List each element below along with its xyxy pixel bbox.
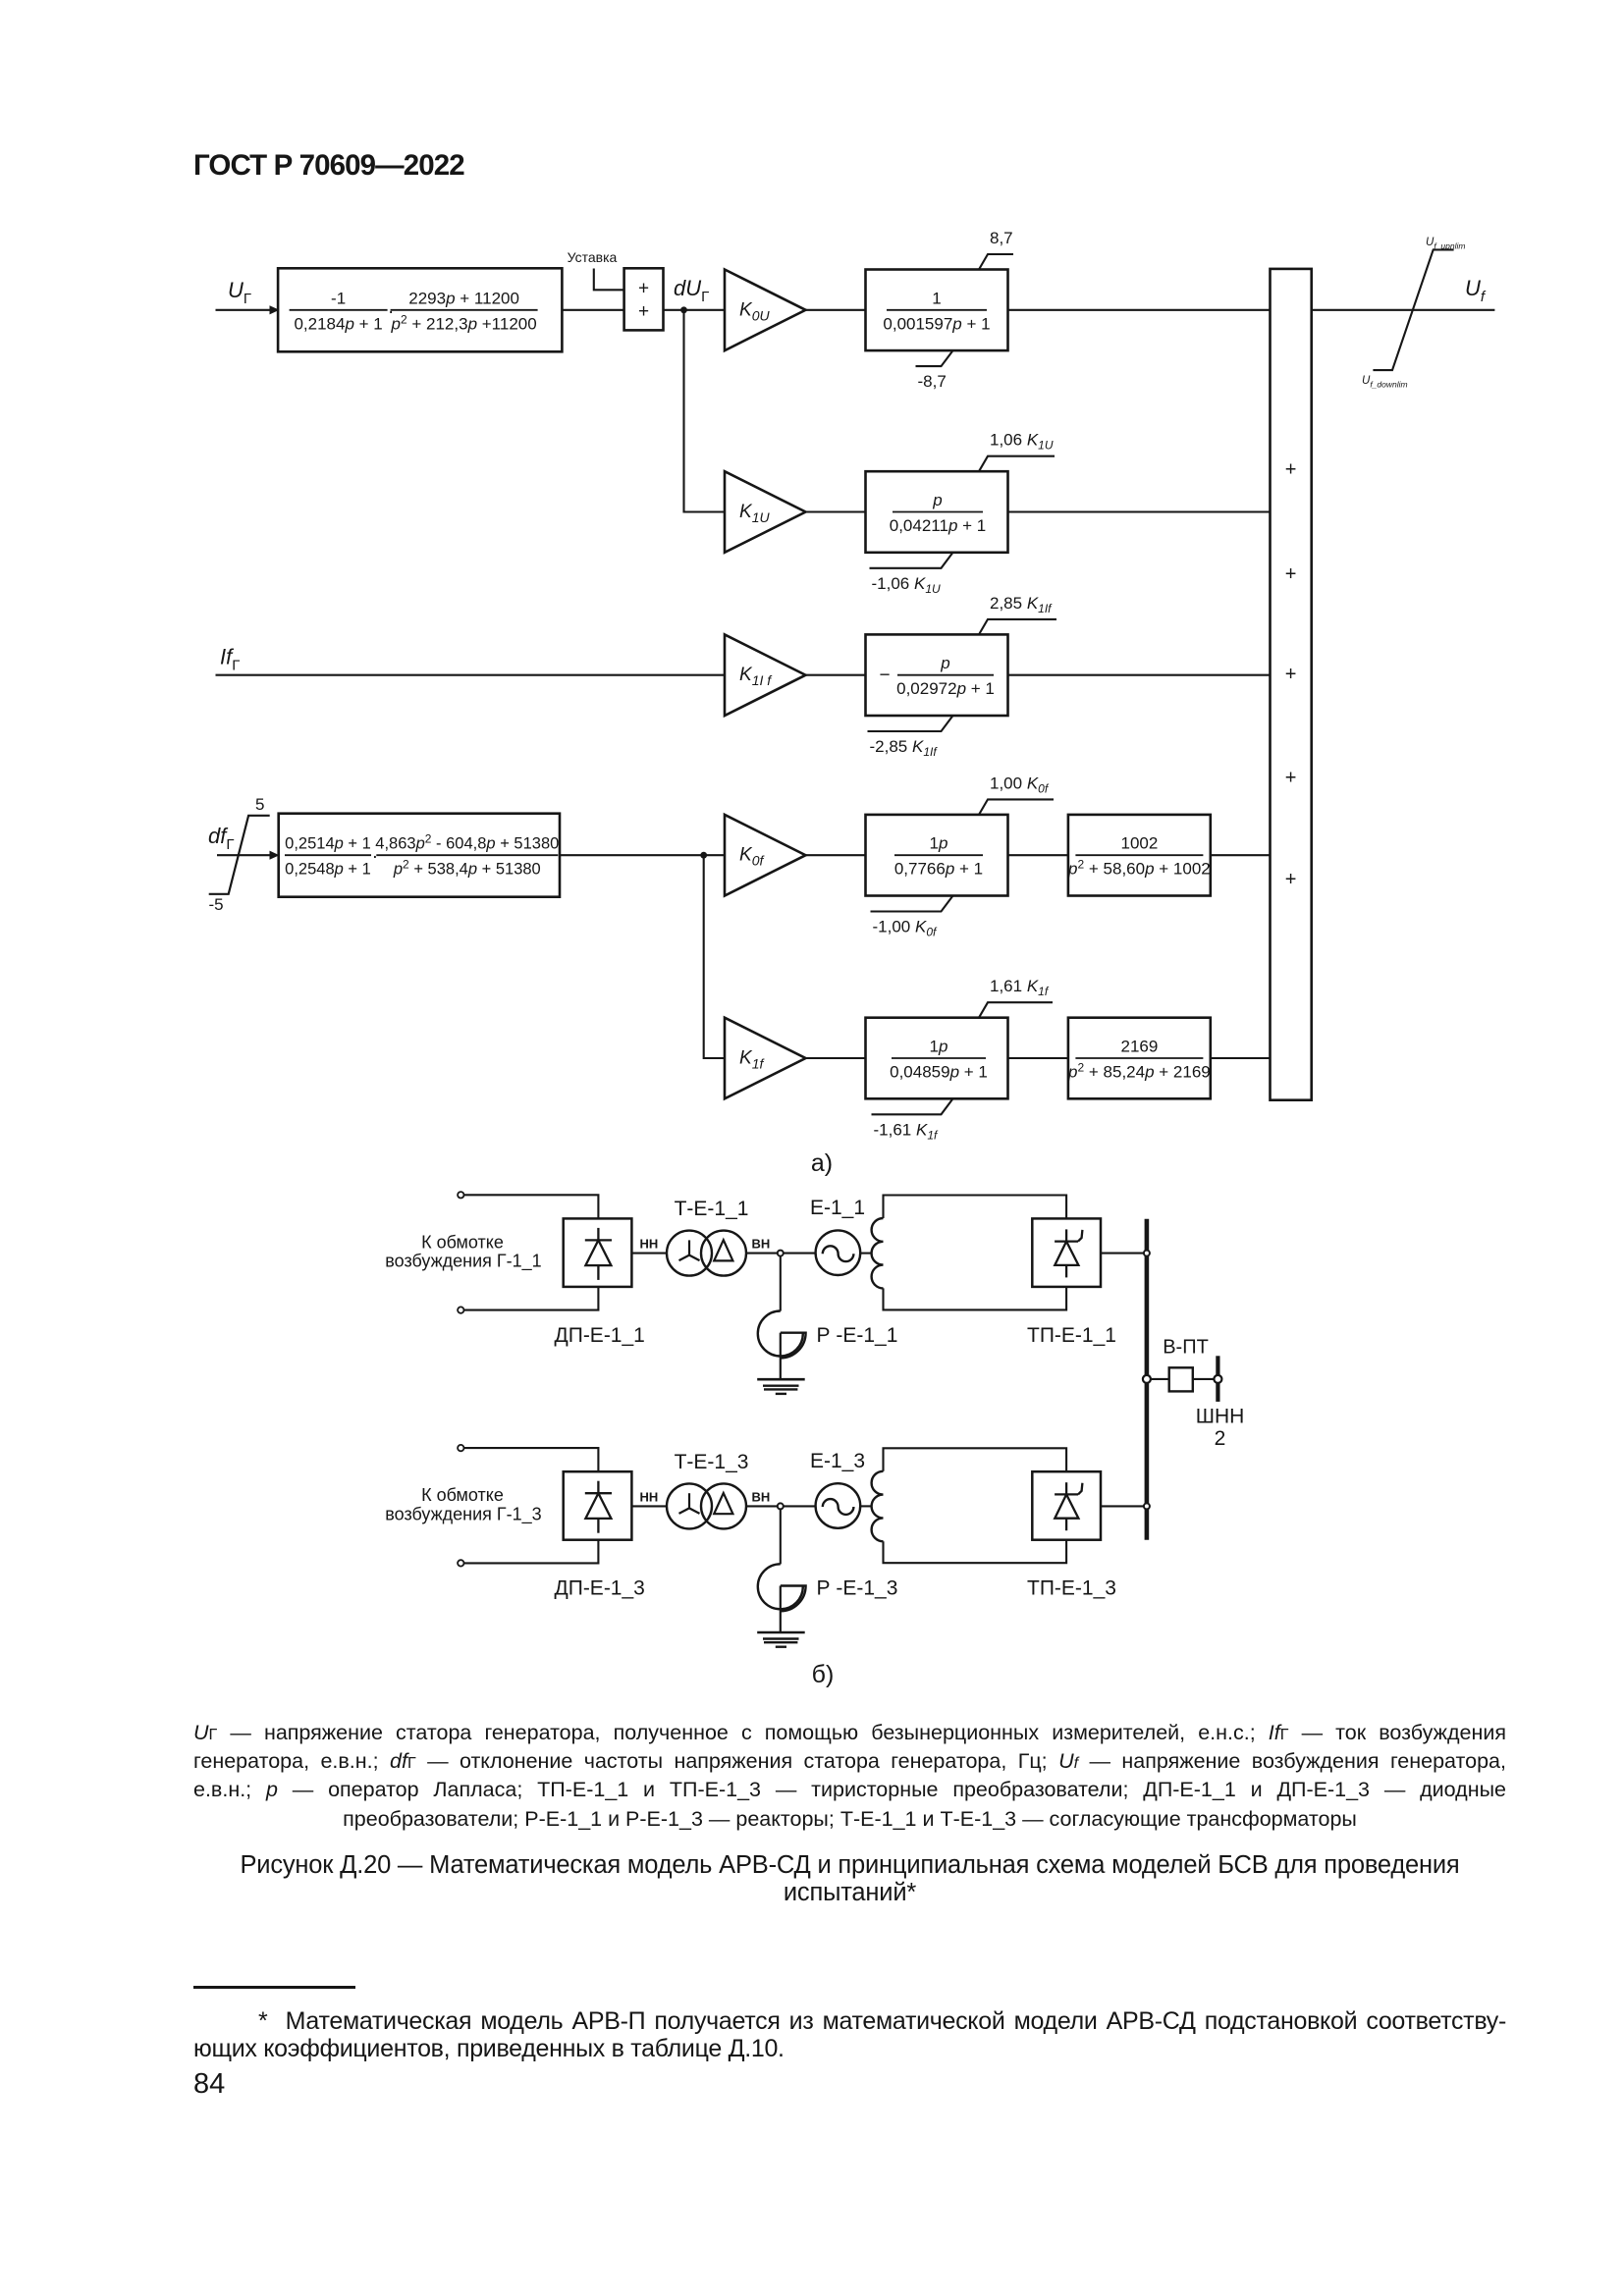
node ВН junction [778, 1503, 784, 1509]
svg-text:ТП-Е-1_1: ТП-Е-1_1 [1027, 1324, 1116, 1347]
block 1/(0,001597p+1) [866, 270, 1008, 351]
svg-text:+: + [638, 301, 649, 322]
generator Е-1_1 [816, 1230, 861, 1275]
svg-text:возбуждения Г-1_3: возбуждения Г-1_3 [385, 1504, 541, 1524]
summing bar [1271, 269, 1312, 1100]
legend line 3 [193, 1776, 1506, 1804]
svg-text:1,61 K1f: 1,61 K1f [990, 977, 1050, 998]
thyristor converter ТП-Е-1_3 [1032, 1471, 1101, 1540]
svg-text:Т-Е-1_3: Т-Е-1_3 [675, 1451, 749, 1473]
svg-text:б): б) [812, 1661, 835, 1688]
svg-text:UГ: UГ [228, 278, 251, 307]
wire block to summing bar row1 [1008, 309, 1271, 311]
wire junction to reactor Р-Е-1_3 [780, 1509, 782, 1564]
svg-text:IfГ: IfГ [220, 645, 240, 674]
svg-text:0,001597p + 1: 0,001597p + 1 [883, 314, 990, 333]
svg-text:8,7: 8,7 [990, 229, 1013, 247]
svg-text:Е-1_3: Е-1_3 [810, 1450, 865, 1472]
wire to block 1002 [1008, 854, 1068, 856]
node dUГ junction [680, 306, 687, 313]
svg-text:+: + [638, 279, 649, 299]
svg-text:p2 + 58,60p + 1002: p2 + 58,60p + 1002 [1067, 858, 1211, 879]
svg-text:0,02972p + 1: 0,02972p + 1 [896, 679, 995, 698]
wire transformer to Е [746, 1505, 816, 1507]
svg-text:-1: -1 [331, 289, 346, 307]
svg-text:ДП-Е-1_1: ДП-Е-1_1 [555, 1324, 645, 1347]
svg-text:возбуждения Г-1_1: возбуждения Г-1_1 [385, 1252, 541, 1272]
svg-text:dUГ: dUГ [674, 276, 709, 305]
wire summer to K0U [664, 309, 726, 311]
page number [193, 2070, 225, 2099]
generator Е-1_3 [816, 1483, 861, 1528]
legend line 1 [193, 1719, 1506, 1747]
svg-text:1p: 1p [930, 834, 948, 853]
svg-text:Uf_upnlim: Uf_upnlim [1426, 237, 1465, 251]
svg-text:ШНН: ШНН [1196, 1405, 1245, 1427]
wire bus to В-ПТ [1151, 1378, 1169, 1380]
svg-text:0,2514p + 1: 0,2514p + 1 [285, 835, 371, 853]
svg-text:Uf_downlim: Uf_downlim [1362, 375, 1408, 390]
svg-text:5: 5 [255, 795, 264, 814]
wire Uf output [1312, 309, 1495, 311]
transformer Т-Е-1_1 star winding [667, 1231, 712, 1276]
svg-text:2169: 2169 [1120, 1038, 1158, 1056]
transformer Т-Е-1_1 delta winding [701, 1231, 746, 1276]
saturation limiter symbol [1373, 249, 1453, 370]
wire junction to reactor Р-Е-1_1 [780, 1256, 782, 1311]
wire block 1002 to summing bar [1211, 854, 1271, 856]
terminal lower 1_3 [458, 1560, 463, 1566]
ground [757, 1378, 805, 1381]
legend line 4 [193, 1805, 1506, 1834]
svg-text:0,04859p + 1: 0,04859p + 1 [890, 1063, 988, 1082]
block p/(0,04211p+1) [866, 471, 1008, 553]
footnote line 2 [193, 2035, 1506, 2062]
wire K0U to block [806, 309, 866, 311]
svg-text:+: + [1285, 563, 1297, 585]
svg-text:1,00 K0f: 1,00 K0f [990, 774, 1050, 795]
transformer Т-Е-1_3 star winding [667, 1483, 712, 1528]
svg-text:-8,7: -8,7 [918, 372, 947, 391]
svg-text:ВН: ВН [752, 1237, 771, 1252]
svg-text:p2 + 538,4p + 51380: p2 + 538,4p + 51380 [393, 858, 541, 879]
amplifier K1U [725, 471, 806, 553]
node df junction [700, 852, 707, 859]
reactor Р-Е-1_3 [758, 1564, 803, 1609]
wire lower terminal to ДП-Е-1_1 [464, 1287, 599, 1310]
wire Уставка to summer [594, 269, 624, 291]
wire W1 to summer [562, 309, 623, 311]
svg-text:ВН: ВН [752, 1489, 771, 1504]
summing block [624, 268, 664, 330]
terminal upper 1_3 [458, 1445, 463, 1451]
wire dfГ input [217, 854, 270, 856]
wire ДП to transformer [631, 1505, 668, 1507]
svg-text:-1,00 K0f: -1,00 K0f [873, 918, 939, 939]
wire transformer to Е [746, 1253, 816, 1255]
svg-text:2,85 K1If: 2,85 K1If [990, 594, 1053, 615]
limit label 1,00 K0f [979, 799, 1054, 815]
field winding of Е-1_1 (coil) [872, 1218, 884, 1288]
amplifier K1f [725, 1018, 806, 1099]
svg-text:Uf: Uf [1465, 276, 1487, 305]
svg-text:+: + [1285, 664, 1297, 685]
input limiter 5/-5 symbol [209, 816, 270, 894]
wire block 2169 to summing bar [1211, 1057, 1271, 1059]
svg-text:p: p [940, 654, 949, 672]
block 1002/(p2+58,60p+1002) [1068, 815, 1211, 896]
figure caption [193, 1852, 1506, 1880]
header ГОСТ Р 70609—2022 [193, 149, 464, 183]
wire K1If to block [806, 674, 866, 676]
wire dUГ to K1U [684, 310, 726, 512]
svg-text:ТП-Е-1_3: ТП-Е-1_3 [1027, 1577, 1116, 1600]
node ШНН junction [1214, 1375, 1221, 1383]
switch В-ПТ [1169, 1367, 1193, 1391]
terminal lower 1_1 [458, 1307, 463, 1312]
limit label 1,61 K1f [979, 1002, 1053, 1017]
block 1p/(0,7766p+1) [866, 815, 1008, 896]
wire ТП-Е-1_3 to bus [1101, 1505, 1145, 1507]
block -p/(0,02972p+1) [866, 634, 1008, 716]
bus ШНН 2 bar [1216, 1356, 1219, 1374]
svg-text:В-ПТ: В-ПТ [1163, 1337, 1209, 1359]
bus (DC bus bar) [1145, 1219, 1150, 1540]
winding loop rectangle [884, 1448, 1067, 1471]
svg-text:-1,61 K1f: -1,61 K1f [874, 1120, 940, 1142]
svg-text:ДП-Е-1_3: ДП-Е-1_3 [555, 1577, 645, 1600]
limit label 8,7 [979, 254, 1013, 270]
limit label -8,7 [916, 350, 953, 366]
svg-text:2293p + 11200: 2293p + 11200 [408, 289, 519, 307]
svg-text:1: 1 [932, 289, 941, 307]
svg-text:p: p [932, 491, 942, 509]
svg-text:-1,06 K1U: -1,06 K1U [872, 574, 942, 596]
svg-text:НН: НН [640, 1237, 659, 1252]
wire block to summing bar row2 [1008, 510, 1271, 512]
svg-text:0,2548p + 1: 0,2548p + 1 [285, 861, 371, 879]
field winding of Е-1_3 (coil) [872, 1471, 884, 1541]
svg-text:2: 2 [1215, 1427, 1226, 1450]
footnote rule [193, 1986, 355, 1989]
wire Е to field winding [860, 1253, 872, 1255]
wire K0f to block [806, 854, 866, 856]
terminal upper 1_1 [458, 1192, 463, 1198]
limit label 2,85 K1If [979, 619, 1056, 635]
svg-text:0,7766p + 1: 0,7766p + 1 [894, 860, 983, 879]
transformer Т-Е-1_3 delta winding [701, 1483, 746, 1528]
amplifier K0f [725, 815, 806, 896]
svg-text:0,04211p + 1: 0,04211p + 1 [890, 516, 987, 535]
svg-text:+: + [1285, 869, 1297, 890]
diode converter ДП-Е-1_1 [564, 1218, 632, 1287]
svg-text:-5: -5 [209, 895, 224, 914]
svg-text:Р -Е-1_1: Р -Е-1_1 [817, 1324, 898, 1347]
svg-text:4,863p2 - 604,8p + 51380: 4,863p2 - 604,8p + 51380 [375, 832, 559, 853]
amplifier K0U [725, 270, 806, 351]
wire df junction to K1f [704, 855, 725, 1058]
svg-text:p2 + 85,24p + 2169: p2 + 85,24p + 2169 [1067, 1061, 1211, 1082]
wire UГ input [216, 309, 271, 311]
svg-text:НН: НН [640, 1489, 659, 1504]
wire upper terminal to ДП-Е-1_3 [464, 1448, 599, 1471]
wire ТП-Е-1_1 to bus [1101, 1253, 1145, 1255]
node bus junction circuit 2 [1144, 1503, 1150, 1509]
ground [757, 1631, 805, 1634]
wire IfГ input [216, 674, 726, 676]
svg-text:К обмотке: К обмотке [421, 1232, 504, 1252]
wire ДП to transformer [631, 1253, 668, 1255]
svg-text:Р -Е-1_3: Р -Е-1_3 [817, 1577, 898, 1600]
svg-text:Т-Е-1_1: Т-Е-1_1 [675, 1198, 749, 1220]
reactor Р-Е-1_1 [758, 1311, 803, 1357]
limit label -1,61 K1f [872, 1098, 953, 1114]
wire block to summing bar row3 [1008, 674, 1271, 676]
block W1 voltage measuring filter [278, 268, 562, 351]
svg-text:+: + [1285, 768, 1297, 789]
limit label -1,06 K1U [870, 553, 953, 568]
limit label -2,85 K1If [868, 716, 953, 731]
block 2169/(p2+85,24p+2169) [1068, 1018, 1211, 1099]
node ВН junction [778, 1251, 784, 1256]
svg-text:+: + [1285, 458, 1297, 480]
wire В-ПТ to ШНН [1193, 1378, 1215, 1380]
footnote line 1 [193, 2007, 1506, 2035]
svg-text:-2,85 K1If: -2,85 K1If [870, 737, 939, 759]
wire K1f to block [806, 1057, 866, 1059]
thyristor converter ТП-Е-1_1 [1032, 1218, 1101, 1287]
legend line 2 [193, 1747, 1506, 1776]
wire W2 to K0f [560, 854, 725, 856]
svg-text:−: − [879, 666, 890, 686]
svg-text:Уставка: Уставка [568, 249, 618, 265]
svg-text:К обмотке: К обмотке [421, 1485, 504, 1505]
svg-text:а): а) [811, 1149, 833, 1177]
block W2 frequency filter [279, 814, 560, 897]
svg-text:0,2184p + 1: 0,2184p + 1 [294, 314, 382, 333]
wire to block 2169 [1008, 1057, 1068, 1059]
svg-text:1,06 K1U: 1,06 K1U [990, 431, 1054, 453]
block 1p/(0,04859p+1) [866, 1018, 1008, 1099]
svg-text:dfГ: dfГ [208, 824, 234, 853]
svg-text:Е-1_1: Е-1_1 [810, 1197, 865, 1219]
node bus junction circuit 1 [1144, 1251, 1150, 1256]
wire K1U to block [806, 510, 866, 512]
wire upper terminal to ДП-Е-1_1 [464, 1195, 599, 1218]
diode converter ДП-Е-1_3 [564, 1471, 632, 1540]
limit label -1,00 K0f [871, 896, 953, 912]
svg-text:p2 + 212,3p +11200: p2 + 212,3p +11200 [390, 312, 536, 333]
svg-text:1p: 1p [930, 1038, 948, 1056]
node bus to В-ПТ junction [1143, 1375, 1151, 1383]
limit label 1,06 K1U [979, 456, 1055, 472]
winding loop rectangle [884, 1196, 1067, 1219]
amplifier K1If [725, 634, 806, 716]
wire lower terminal to ДП-Е-1_3 [464, 1540, 599, 1564]
wire Е to field winding [860, 1505, 872, 1507]
svg-text:1002: 1002 [1120, 834, 1158, 853]
